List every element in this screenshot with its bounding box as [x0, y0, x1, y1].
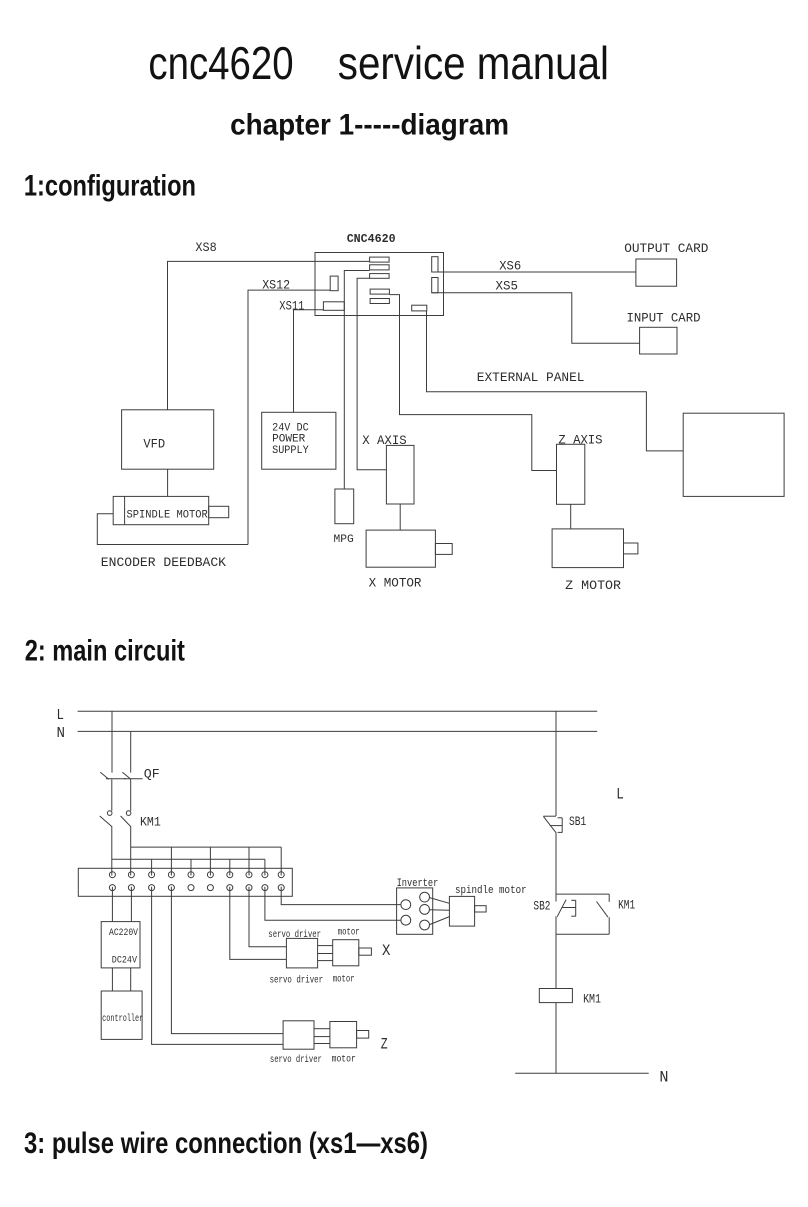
Z coupling shafts: [314, 1029, 330, 1044]
svg-text:KM1: KM1: [618, 898, 635, 913]
inverter output circle W: [420, 920, 430, 930]
wire inverter V to spindle motor: [430, 909, 450, 912]
svg-text:X AXIS: X AXIS: [362, 433, 407, 448]
svg-text:ENCODER DEEDBACK: ENCODER DEEDBACK: [101, 555, 226, 570]
svg-text:AC220V: AC220V: [109, 928, 138, 939]
svg-text:motor: motor: [338, 927, 360, 938]
X motor box: [366, 530, 452, 567]
node N end line: [515, 1072, 649, 1074]
svg-text:Z AXIS: Z AXIS: [558, 432, 602, 447]
pushbutton SB2 normally open: [556, 894, 576, 934]
svg-text:KM1: KM1: [583, 992, 601, 1007]
external panel box: [683, 413, 784, 496]
svg-text:motor: motor: [333, 975, 355, 986]
wire terminal 1 to AC220V box: [111, 887, 113, 922]
X coupling shafts: [318, 946, 333, 961]
inverter output circle V: [420, 905, 430, 915]
spindle motor box: [449, 896, 486, 926]
svg-text:Inverter: Inverter: [397, 878, 439, 890]
svg-text:controller: controller: [102, 1013, 143, 1025]
wire L to SB1: [555, 711, 557, 816]
XS11 connector rect: [323, 302, 344, 311]
output card box: [636, 259, 677, 286]
inverter box: [397, 888, 433, 934]
X motor box: [333, 940, 372, 966]
svg-text:service manual: service manual: [338, 37, 609, 89]
X servo driver box: [286, 938, 317, 968]
input card box: [640, 327, 677, 354]
svg-text:X MOTOR: X MOTOR: [369, 575, 422, 590]
svg-text:VFD: VFD: [143, 437, 165, 452]
svg-text:spindle motor: spindle motor: [455, 885, 527, 897]
svg-text:chapter 1-----diagram: chapter 1-----diagram: [230, 109, 509, 142]
24V DC power supply box: [262, 412, 336, 469]
wire terminal 3 to Z servo driver: [152, 887, 284, 1045]
svg-text:1:configuration: 1:configuration: [24, 170, 196, 203]
svg-text:24V DC: 24V DC: [272, 422, 309, 434]
svg-text:XS6: XS6: [499, 259, 521, 274]
drop to terminal 4: [170, 847, 172, 875]
svg-text:N: N: [659, 1069, 668, 1087]
VFD box: [122, 410, 214, 469]
wire terminal 8 to X servo driver: [249, 887, 286, 947]
wire inverter U to spindle motor: [430, 898, 450, 904]
wire inverter W to spindle motor: [430, 917, 450, 925]
terminal circles top row: [109, 872, 284, 878]
Z axis driver box: [557, 444, 585, 504]
AC220V DC24V power box: [101, 922, 140, 968]
wire XS8 horizontal: [168, 261, 370, 409]
svg-text:POWER: POWER: [272, 434, 305, 446]
svg-text:QF: QF: [144, 767, 160, 782]
breaker QF pole 1: [100, 772, 126, 779]
MPG box: [335, 489, 354, 524]
drop to terminal 3: [151, 859, 153, 875]
svg-text:OUTPUT CARD: OUTPUT CARD: [624, 241, 708, 256]
inverter input circle 1: [401, 900, 411, 910]
svg-text:SUPPLY: SUPPLY: [272, 445, 309, 457]
wire X axis from slot bar 3: [357, 278, 386, 470]
connector slot bar 1: [370, 257, 390, 262]
wire terminal 10 to inverter: [281, 887, 400, 905]
wire external panel: [427, 311, 684, 451]
drop to terminal 10: [280, 847, 282, 875]
terminal circles bottom row: [109, 885, 284, 891]
svg-text:SB2: SB2: [533, 898, 550, 913]
svg-text:Z: Z: [381, 1035, 388, 1053]
contactor KM1 auxiliary contact: [597, 894, 610, 934]
wire XS6 to output card: [432, 271, 636, 273]
node parallel bottom rail: [556, 933, 609, 935]
wire power box to controller left: [111, 968, 113, 991]
svg-text:MPG: MPG: [334, 534, 354, 546]
drop to terminal 7: [229, 859, 231, 875]
connector slot bar 3: [370, 274, 390, 279]
svg-text:Z MOTOR: Z MOTOR: [565, 578, 621, 593]
coil KM1: [539, 989, 572, 1003]
svg-text:X: X: [382, 942, 391, 960]
connector slot bar 5: [370, 299, 389, 304]
Z motor box: [552, 529, 638, 568]
drop to terminal 9: [264, 859, 266, 875]
breaker QF pole 2: [122, 772, 142, 779]
wire XS5 to input card: [432, 293, 640, 343]
wire terminal 7 to X servo driver: [230, 887, 287, 960]
title: cnc4620 service manual: [148, 37, 609, 89]
bus line L: [78, 710, 598, 712]
svg-text:servo driver: servo driver: [270, 1054, 322, 1066]
distribution bus upper: [131, 846, 282, 848]
wire SB1 to SB2 junction: [555, 833, 557, 894]
drop to terminal 6: [209, 847, 211, 875]
wire Z driver to Z motor: [570, 504, 572, 529]
pushbutton SB1 normally closed: [543, 816, 562, 833]
svg-text:servo driver: servo driver: [268, 929, 321, 941]
spindle motor box: [113, 496, 229, 524]
rear connector rect: [412, 305, 427, 311]
svg-text:CNC4620: CNC4620: [347, 232, 396, 246]
node parallel top rail: [556, 893, 609, 895]
wire KM1 pole 2 down to terminal 2: [130, 827, 132, 876]
wire XS12 horizontal: [248, 290, 330, 544]
wire N to QF pole 2: [130, 731, 132, 772]
inverter input circle 2: [401, 915, 411, 925]
svg-text:XS11: XS11: [279, 299, 304, 314]
svg-text:DC24V: DC24V: [112, 955, 137, 966]
wire L to QF pole 1: [111, 711, 113, 772]
svg-text:cnc4620: cnc4620: [148, 37, 293, 89]
svg-text:servo driver: servo driver: [270, 974, 324, 986]
svg-text:XS12: XS12: [262, 278, 290, 293]
contactor KM1 main pole 1: [100, 811, 113, 827]
Z motor box: [330, 1022, 369, 1048]
wire terminal 2 to AC220V box: [130, 887, 132, 922]
wire MPG from slot bar 2: [344, 271, 369, 490]
svg-text:XS5: XS5: [496, 279, 519, 294]
wire to KM1 coil: [555, 934, 557, 988]
svg-text:motor: motor: [332, 1055, 356, 1066]
inverter output circle U: [420, 892, 430, 902]
terminal block box: [78, 868, 292, 896]
svg-text:SPINDLE MOTOR: SPINDLE MOTOR: [127, 509, 209, 521]
svg-text:INPUT CARD: INPUT CARD: [627, 311, 701, 326]
XS5 connector bar: [432, 278, 438, 293]
connector slot bar 2: [370, 265, 390, 270]
XS12 connector rect: [330, 276, 338, 291]
connector slot bar 4: [370, 289, 389, 294]
wire KM1 pole 1 down to terminal 1: [111, 827, 113, 876]
svg-text:EXTERNAL PANEL: EXTERNAL PANEL: [477, 370, 585, 385]
wire KM1 coil to N: [555, 1003, 557, 1074]
svg-text:L: L: [57, 707, 65, 724]
distribution bus lower: [112, 858, 265, 860]
svg-text:SB1: SB1: [569, 814, 586, 829]
wire VFD to spindle motor: [167, 469, 169, 496]
drop to terminal 8: [248, 847, 250, 875]
wire terminal 9 to inverter: [265, 887, 401, 920]
svg-text:3: pulse wire connection (xs1—: 3: pulse wire connection (xs1—xs6): [24, 1127, 428, 1160]
svg-text:KM1: KM1: [140, 814, 161, 829]
wire power box to controller right: [130, 968, 132, 991]
wire Z axis from slot bar 4: [389, 295, 556, 471]
contactor KM1 main pole 2: [121, 811, 131, 827]
wire XS11 horizontal: [294, 310, 324, 413]
wire QF pole 2 to KM1 pole 2: [130, 779, 132, 811]
wire X driver to X motor: [399, 504, 401, 530]
controller box: [101, 991, 142, 1039]
svg-text:N: N: [57, 725, 66, 742]
X axis driver box: [386, 445, 414, 504]
XS6 connector bar: [432, 257, 438, 272]
wire encoder feedback: [97, 514, 248, 545]
svg-text:XS8: XS8: [195, 240, 216, 255]
wire QF pole 1 to KM1 pole 1: [111, 779, 113, 811]
svg-text:L: L: [616, 786, 624, 804]
Z servo driver box: [283, 1021, 314, 1049]
drop to terminal 5: [190, 859, 192, 875]
svg-text:2: main circuit: 2: main circuit: [25, 635, 185, 668]
bus line N: [78, 730, 598, 732]
wire terminal 4 to Z servo driver: [171, 887, 283, 1034]
CNC4620 main unit box: [315, 253, 444, 316]
